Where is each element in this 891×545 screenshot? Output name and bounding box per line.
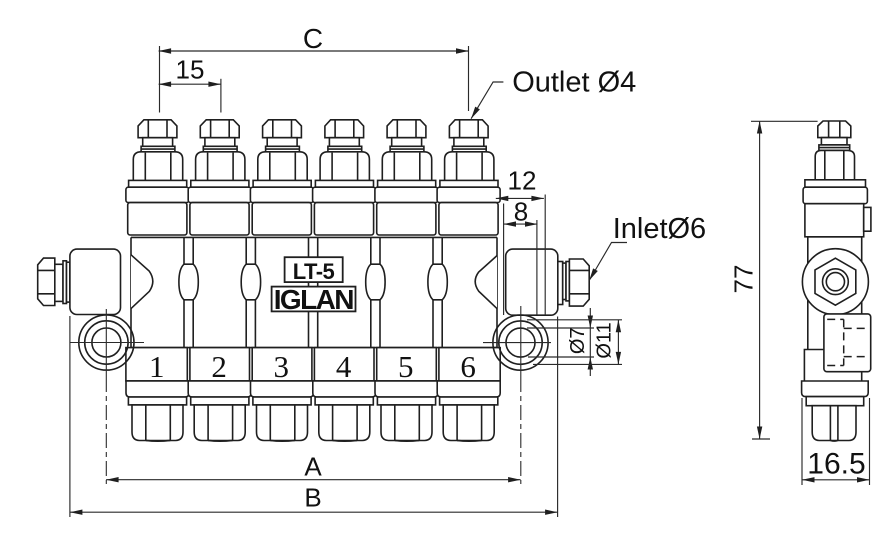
passage lens at divider 5 xyxy=(428,264,447,300)
label plate LT-5 xyxy=(285,257,343,284)
left cone passage xyxy=(131,255,153,309)
label plate IGLAN xyxy=(272,284,356,315)
svg-text:B: B xyxy=(304,483,321,513)
left port hex nut xyxy=(38,258,55,305)
svg-text:1: 1 xyxy=(149,349,165,384)
svg-text:5: 5 xyxy=(398,349,414,384)
svg-text:LT-5: LT-5 xyxy=(293,259,335,284)
station number 4 cell xyxy=(314,348,374,384)
svg-text:16.5: 16.5 xyxy=(807,448,865,481)
station 4 mid-body walls xyxy=(318,237,371,347)
svg-text:15: 15 xyxy=(176,55,205,85)
leader label Outlet Ø4 xyxy=(469,67,637,121)
svg-text:Ø7: Ø7 xyxy=(567,327,589,354)
left port centerlines xyxy=(70,309,144,484)
side lower step xyxy=(804,350,824,382)
dimension C (outlet span) xyxy=(159,23,469,113)
dimension B xyxy=(70,316,558,517)
side strip xyxy=(805,180,866,187)
inlet hex nut xyxy=(569,259,589,306)
station 6 upper flange xyxy=(437,180,500,235)
side body column xyxy=(808,237,862,381)
left port body block xyxy=(70,249,121,314)
station number 1 cell xyxy=(126,348,187,384)
inlet washers xyxy=(558,262,570,305)
station 1 upper flange xyxy=(126,180,189,235)
side step band xyxy=(806,397,864,406)
side hex boss xyxy=(802,249,868,315)
bottom nut station 1 xyxy=(126,381,189,441)
side top hex cap xyxy=(818,121,851,138)
outlet fitting station 5 xyxy=(382,120,431,181)
station 6 mid-body walls xyxy=(442,237,497,347)
svg-text:C: C xyxy=(303,23,323,54)
station 4 upper flange xyxy=(313,180,376,235)
outlet fitting station 6 xyxy=(445,120,494,181)
svg-text:Outlet Ø4: Outlet Ø4 xyxy=(512,67,636,99)
bottom nut station 5 xyxy=(375,381,438,441)
station number 3 cell xyxy=(252,348,312,384)
dimension 16.5 xyxy=(802,398,870,485)
station 3 upper flange xyxy=(250,180,313,235)
svg-text:3: 3 xyxy=(274,349,290,384)
bottom nut station 6 xyxy=(437,381,500,441)
bottom nut station 3 xyxy=(251,381,314,441)
bottom nut station 2 xyxy=(188,381,251,441)
bottom nut station 4 xyxy=(313,381,376,441)
station 2 upper flange xyxy=(188,180,251,235)
svg-text:IGLAN: IGLAN xyxy=(274,284,353,315)
right port bore circles xyxy=(493,315,548,370)
right port centerlines xyxy=(483,306,551,484)
station number 2 cell xyxy=(190,348,250,384)
svg-text:6: 6 xyxy=(460,349,476,384)
station 5 upper flange xyxy=(375,180,438,235)
inlet body block xyxy=(506,249,558,315)
dimension Ø7 xyxy=(527,308,594,376)
outlet fitting station 4 xyxy=(320,120,369,181)
side bottom flange xyxy=(802,381,869,397)
outlet fitting station 3 xyxy=(258,120,307,181)
side bottom nut xyxy=(812,406,856,441)
side fitting collar xyxy=(819,145,850,151)
svg-text:2: 2 xyxy=(211,349,227,384)
outlet fitting station 2 xyxy=(196,120,245,181)
dimension 77 xyxy=(729,121,818,439)
station 2 mid-body walls xyxy=(193,237,246,347)
dimension Ø11 xyxy=(527,320,622,365)
left port washers xyxy=(55,261,70,304)
svg-text:A: A xyxy=(304,452,322,482)
side fitting neck xyxy=(821,138,847,145)
station number 5 cell xyxy=(377,348,437,384)
dimension 8 xyxy=(504,197,538,316)
passage lens at divider 2 xyxy=(241,264,260,300)
station number 6 cell xyxy=(439,348,500,384)
side compression nut xyxy=(815,150,854,179)
leader label InletØ6 xyxy=(587,213,706,282)
svg-text:Ø11: Ø11 xyxy=(594,322,616,358)
svg-text:12: 12 xyxy=(508,166,537,196)
dimension A xyxy=(106,452,520,483)
svg-text:8: 8 xyxy=(514,197,528,227)
station 1 mid-body walls xyxy=(131,237,184,347)
left port bore circles xyxy=(79,315,134,370)
svg-text:InletØ6: InletØ6 xyxy=(613,213,707,245)
side upper band xyxy=(805,204,871,237)
body mid horizontal edges xyxy=(131,237,497,347)
right cone passage xyxy=(475,256,497,309)
side flange xyxy=(803,187,867,204)
passage lens at divider 4 xyxy=(366,264,385,300)
station 5 mid-body walls xyxy=(380,237,433,347)
dimension 12 xyxy=(496,166,545,316)
side clip bracket xyxy=(824,314,871,372)
station 3 mid-body walls xyxy=(255,237,308,347)
outlet fitting station 1 xyxy=(133,120,182,181)
svg-text:77: 77 xyxy=(729,265,759,294)
passage lens at divider 1 xyxy=(179,264,198,300)
dimension 15 (outlet pitch) xyxy=(159,55,221,113)
svg-text:4: 4 xyxy=(336,349,352,384)
